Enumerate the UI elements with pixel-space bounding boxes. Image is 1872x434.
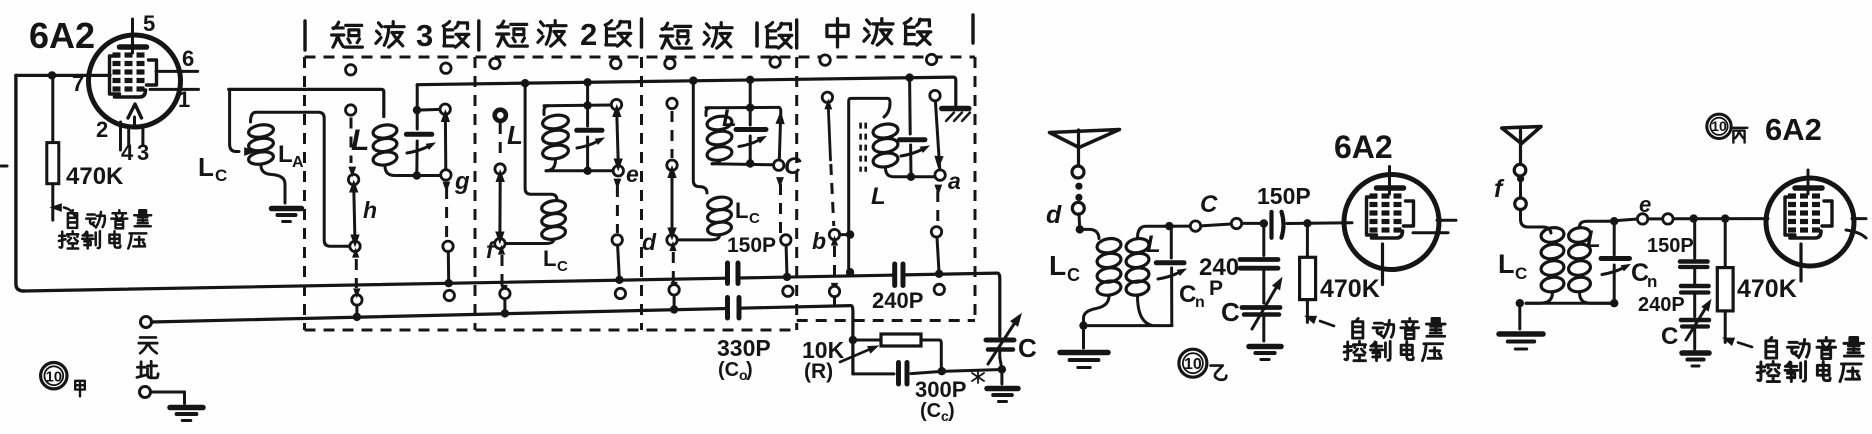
label band 中波段 (827, 19, 931, 47)
pin 4 wire (127, 126, 130, 145)
wiper arm b upper (824, 99, 833, 227)
node top rail B (1165, 222, 1173, 230)
trimmer Cn circuit B (1156, 226, 1188, 326)
wire box3 tank vertical (749, 80, 752, 108)
contact e-C1 (1637, 214, 1647, 224)
svg-text:d: d (1046, 201, 1062, 229)
node sw2 AVC junction (615, 276, 623, 284)
wire b to coil vertical (840, 233, 846, 236)
svg-text:L: L (1049, 250, 1066, 281)
wire coupling Lc-LA into box1 (256, 112, 350, 246)
contact g (441, 170, 451, 180)
contact sw2-R5 (615, 288, 625, 298)
svg-text:): ) (746, 359, 753, 381)
node box3 feed (689, 76, 697, 84)
antenna B (1050, 130, 1120, 167)
node resistor cap junction (938, 367, 946, 375)
svg-text:2: 2 (96, 117, 108, 142)
label AVC line2 (control voltage) (59, 231, 146, 248)
node trimmer tap band3 (413, 106, 421, 114)
svg-text:L: L (1498, 249, 1515, 279)
wiper arm g (441, 109, 450, 170)
contact C-B1 (1190, 221, 1200, 231)
svg-text:(C: (C (920, 400, 941, 422)
contact sw2-L5 (500, 288, 510, 298)
wire contact to cap B (1242, 222, 1267, 225)
svg-text:10: 10 (1711, 118, 1727, 134)
node ant-B dot1 (1075, 183, 1082, 190)
svg-text:C: C (1067, 265, 1080, 285)
tube V3 6A2 circuit C (1766, 170, 1866, 281)
antenna C lead through (1519, 130, 1522, 165)
badge 10-yi (1179, 349, 1207, 377)
svg-text:L: L (198, 152, 214, 182)
svg-text:h: h (363, 197, 377, 223)
coil Lc circuit C (1526, 226, 1565, 303)
contact sw1-R2 (440, 104, 450, 114)
contact sw2-L3 wiper top (495, 164, 505, 174)
variable capacitor C main tuning (986, 310, 1026, 370)
wire rail to contact e (1608, 219, 1637, 221)
node box2 tank feed (583, 78, 591, 86)
wire to coil C (1521, 209, 1537, 227)
contact sw1-R4 (443, 241, 453, 251)
label 甲 (75, 381, 85, 397)
node 150P tap C (1690, 214, 1698, 222)
svg-text:470K: 470K (1320, 275, 1380, 303)
contact sw4-R1 (926, 54, 936, 64)
junction star mark (972, 371, 984, 383)
contact sw3-L1 (665, 58, 675, 68)
svg-text:240P: 240P (872, 288, 923, 313)
pin 3 wire (141, 126, 144, 145)
node tank bottom junction band2 (583, 167, 591, 175)
dashed travel C lower (776, 177, 784, 233)
svg-text:L: L (543, 246, 556, 271)
node ground junction C (1516, 299, 1524, 307)
wire sw3-R4 to AVC bus (785, 245, 789, 277)
node sw3 bus junction (670, 305, 678, 313)
label Cn circuit B (1179, 281, 1205, 311)
node ground junction B (1079, 321, 1087, 329)
label band 短波2段 (497, 17, 631, 52)
contact sw3-L3 wiper top (667, 160, 677, 170)
trimmer capacitor band2 (577, 106, 607, 171)
node box4 AVC junction (846, 268, 854, 276)
ground at 地 terminal (170, 408, 203, 421)
node Cn bottom C (1610, 299, 1618, 307)
resistor 470K circuit B (1300, 224, 1316, 323)
wire sw4-L5 to antenna bus (833, 297, 836, 306)
contact ant-C2 (1515, 198, 1527, 210)
contact sw4-L2 (822, 92, 832, 102)
svg-text:g: g (454, 168, 470, 195)
resistor 10K (R) (853, 334, 941, 371)
wiper arm f (495, 169, 505, 245)
ground below C circuit C (1682, 353, 1709, 366)
contact sw3-L2 (667, 98, 677, 108)
trimmer capacitor band3 (406, 85, 437, 176)
wire between contacts C (1648, 217, 1663, 220)
contact sw2-L1 (490, 58, 500, 68)
svg-text:150P: 150P (727, 234, 776, 257)
label (Cc) (920, 400, 955, 424)
svg-text:C: C (1179, 281, 1196, 308)
node AVC junction (48, 71, 56, 79)
bus wire antenna (lower bus) (152, 306, 853, 374)
label 300P (915, 377, 966, 402)
coil L band3 (372, 123, 440, 175)
contact sw4-R5 (934, 284, 944, 294)
wire sw2-R4 to AVC bus (618, 245, 620, 280)
wire cap to tube B (1287, 221, 1352, 225)
pin 6 wire (156, 70, 198, 73)
tank rail top band1 (706, 108, 710, 116)
contact sw3-R4 (781, 235, 791, 245)
svg-text:330P: 330P (717, 335, 771, 361)
wiper arm h (349, 180, 360, 248)
wire contacts to tube C (1673, 217, 1768, 220)
wire box2 to coil Lc (525, 83, 557, 200)
dashed travel sw1 left lower (352, 248, 360, 299)
label Lc band2 (543, 246, 568, 275)
svg-text:150P: 150P (1257, 183, 1311, 209)
node sw3 AVC junction (783, 273, 791, 281)
node sw1 AVC junction (445, 279, 453, 287)
contact sw2-R2 (611, 99, 621, 109)
svg-text:10: 10 (45, 369, 62, 386)
wire trimmer to contact g-top (417, 108, 440, 112)
wire sw1-5 to antenna bus (355, 305, 358, 317)
coil L band4 with core (861, 98, 935, 176)
coil L band1 (706, 115, 733, 164)
coil Lc band2 (505, 199, 566, 244)
wiper arm a (934, 101, 944, 169)
node resistor tap (849, 336, 857, 344)
svg-text:e: e (626, 161, 639, 187)
pin 7 wire (16, 74, 110, 77)
node trimmer bottom band3 (413, 171, 421, 179)
contact sw2-R4 (612, 235, 622, 245)
ground main tuning (987, 389, 1018, 402)
wire sw3-L5 to antenna bus (673, 295, 676, 310)
svg-text:L: L (278, 141, 293, 168)
arrow AVC pointer C (1721, 333, 1752, 347)
dashed travel f lower (498, 245, 508, 296)
ground circuit B (1060, 353, 1108, 368)
svg-text:L: L (871, 183, 886, 210)
dashed travel f upper (499, 123, 502, 160)
contact sw3-L5 (669, 285, 679, 295)
antenna C (1502, 127, 1541, 144)
contact ant-B2 d (1072, 202, 1084, 214)
dashed travel e lower (614, 179, 622, 233)
svg-text:C: C (557, 258, 568, 275)
node ant-C dot (1517, 175, 1524, 182)
svg-text:150P: 150P (1647, 235, 1694, 257)
badge 10-bing (1707, 114, 1731, 138)
wire sw1-R4 to AVC bus (447, 252, 450, 284)
node 470K tap C (1721, 214, 1729, 222)
contact sw4-L1 (820, 55, 830, 65)
node tank bottom junction band4 (907, 173, 915, 181)
arrow AVC pointer B (1303, 312, 1334, 326)
contact d (667, 235, 677, 245)
label Lc circuit B (1049, 250, 1080, 285)
tank rail bottom band2 (546, 169, 613, 172)
contact C band1 (774, 160, 784, 170)
label 丙 (1731, 128, 1748, 143)
contact sw1-2 (346, 105, 356, 115)
capacitor 240P series in AVC bus (895, 264, 903, 286)
coil Lc band3x (677, 195, 732, 239)
node ant-B dot2 (1075, 194, 1082, 201)
svg-text:d: d (642, 229, 657, 255)
svg-text:7: 7 (72, 71, 84, 96)
contact sw1-3 wiper top (348, 174, 358, 184)
svg-text:(R): (R) (804, 360, 833, 383)
label 天 (139, 337, 157, 353)
badge 10-jia (41, 363, 67, 389)
node tuning ground junction (998, 365, 1006, 373)
tank rail top band2 (544, 106, 548, 115)
label Lc circuit C (1498, 249, 1527, 283)
svg-text:(C: (C (718, 359, 739, 381)
svg-text:300P: 300P (915, 377, 966, 402)
coil L circuit C (1568, 221, 1611, 303)
arrow pointer to 10K resistor (840, 342, 881, 362)
svg-text:C: C (1221, 297, 1240, 327)
dashed travel b lower (831, 236, 838, 294)
contact sw3-R1 (770, 57, 780, 67)
contact sw1-5 (352, 295, 362, 305)
svg-text:n: n (1195, 294, 1205, 311)
label band 短波1段 (661, 23, 792, 49)
label 乙 (1211, 366, 1227, 380)
pin 1 wire (150, 88, 199, 91)
contact e (613, 166, 623, 176)
svg-text:L: L (1146, 231, 1161, 258)
ground below C circuit B (1249, 347, 1281, 360)
contact sw1-1 (346, 65, 356, 75)
node sw1 bus junction (353, 313, 361, 321)
capacitor 150P circuit B (1272, 212, 1284, 238)
contact f (495, 238, 505, 248)
node box4 tank feed (905, 73, 913, 81)
svg-text:L: L (1586, 226, 1601, 253)
wire bottom rail B (1084, 324, 1173, 327)
arrow AVC pointer (50, 203, 76, 216)
label band 短波3段 (332, 18, 469, 53)
svg-text:b: b (812, 228, 826, 254)
dashed travel d upper (671, 111, 674, 158)
wiper arm C band1 (775, 107, 785, 160)
contact ant-B1 (1072, 166, 1084, 178)
node 470K tap B (1303, 219, 1311, 227)
node sw4 AVC junction (935, 270, 943, 278)
svg-text:6A2: 6A2 (1765, 112, 1822, 147)
coil LA (248, 112, 285, 203)
svg-text:L: L (735, 198, 748, 223)
label Cn circuit C (1631, 259, 1657, 291)
svg-text:C: C (749, 210, 760, 227)
ground circuit C (1499, 334, 1543, 349)
label LA (278, 141, 304, 171)
pin 2 wire (119, 122, 122, 150)
trimmer capacitor band4 (900, 78, 932, 177)
wire (1519, 183, 1522, 199)
label AVC line1 (auto volume) (68, 210, 151, 228)
wire ground stub C (1518, 303, 1521, 329)
contact b (829, 229, 839, 239)
band box frame (dashed) (305, 15, 976, 330)
dashed travel g lower (443, 182, 451, 239)
contact sw1-4 h (350, 241, 360, 251)
contact sw4-L5 (829, 286, 839, 296)
label Lc band1 (735, 198, 760, 227)
contact sw4-R4 (931, 227, 941, 237)
wire box1 top to coil L (229, 89, 384, 116)
svg-text:470K: 470K (66, 163, 124, 190)
svg-text:e: e (1639, 192, 1651, 217)
label AVC line2 circuit C (1757, 361, 1861, 381)
svg-text:L: L (351, 124, 369, 157)
trimmer Cn circuit C (1601, 221, 1633, 303)
svg-text:2: 2 (580, 17, 597, 52)
contact C-B2 (1231, 218, 1241, 228)
label AVC line1 circuit C (1766, 337, 1864, 358)
node 240P tap B (1260, 219, 1268, 227)
chassis ground top right (942, 109, 970, 122)
svg-text:C: C (784, 153, 802, 180)
dashed travel sw1 left upper (348, 118, 356, 178)
wire tap to coil LA (230, 91, 257, 156)
contact a (935, 170, 945, 180)
coil Lc circuit B (1080, 229, 1122, 324)
resistor 470K circuit C (1717, 219, 1733, 343)
stray mark left edge (1, 165, 7, 168)
wire to ground (1000, 369, 1003, 384)
wire bottom rail C (1526, 302, 1614, 305)
svg-text:C: C (1200, 191, 1218, 218)
wire to coil Lc B (1078, 214, 1082, 226)
resistor R-470K (47, 75, 59, 220)
svg-text:470K: 470K (1737, 275, 1797, 303)
svg-text:6A2: 6A2 (1334, 129, 1393, 165)
contact ant-C1 (1514, 164, 1526, 176)
wire tank rail band2 (544, 104, 612, 108)
wire box2 tank vertical (586, 82, 589, 105)
svg-text:6A2: 6A2 (29, 15, 95, 56)
coil L band2 (542, 113, 570, 170)
svg-text:10: 10 (1184, 356, 1202, 373)
ground below coil LA (272, 209, 302, 222)
node b tap (846, 230, 854, 238)
svg-text:C: C (1515, 264, 1527, 283)
contact sw2-R1 (611, 58, 621, 68)
svg-text:n: n (1647, 272, 1657, 291)
terminal antenna 天 (141, 317, 152, 328)
contact sw4-R2 (930, 90, 940, 100)
svg-text:1: 1 (178, 87, 190, 112)
dashed travel d lower (669, 241, 677, 292)
label (Co) (718, 359, 753, 383)
node rail junction band1 (746, 104, 754, 112)
svg-text:a: a (948, 168, 961, 194)
stud contact band2 (495, 110, 506, 121)
node box3 tank feed (746, 76, 754, 84)
svg-text:3: 3 (416, 18, 433, 53)
capacitor 150P series in AVC bus (728, 263, 739, 284)
wire top bus across band boxes (417, 77, 956, 105)
variable capacitor C circuit C (1681, 296, 1715, 349)
wire coil top horizontal band4 (849, 98, 888, 272)
capacitor 300P (Cc) (853, 363, 1002, 385)
node sw2 bus junction (501, 309, 509, 317)
contact sw1-R1 (441, 63, 451, 73)
svg-text:C: C (1661, 323, 1678, 350)
svg-text:3: 3 (137, 140, 149, 165)
capacitor 240P circuit B (1240, 224, 1278, 304)
capacitor 330P series in antenna bus (728, 298, 740, 319)
wire sw2-L5 to antenna bus (503, 299, 506, 314)
dashed travel a lower (934, 185, 942, 226)
terminal ground 地 (140, 387, 185, 404)
node top rail C (1610, 217, 1618, 225)
tank rail bottom band1 (712, 164, 774, 165)
wire AVC left vertical (16, 75, 24, 291)
label Lc (antenna coupling coil) (198, 152, 227, 185)
node box2 feed (521, 79, 529, 87)
node tank bottom junction band1 (746, 159, 754, 167)
contact sw3-R5 (783, 286, 793, 296)
svg-text:6: 6 (182, 46, 194, 71)
wire tank rail band1 (706, 106, 779, 109)
wiper arm d (667, 165, 676, 241)
wire rail to contacts B (1164, 225, 1190, 228)
label 地 (137, 361, 158, 378)
svg-text:A: A (292, 154, 304, 171)
trimmer capacitor band1 (736, 108, 769, 163)
svg-text:C: C (215, 166, 227, 185)
node rail junction band2 (583, 101, 591, 109)
node coil top B (1076, 225, 1084, 233)
capacitor 240P circuit C (1681, 270, 1709, 317)
label AVC line1 circuit B (1353, 318, 1446, 338)
svg-text:4: 4 (121, 140, 134, 165)
variable capacitor C circuit B (1242, 274, 1287, 341)
tube V1 6A2 heptode (89, 19, 181, 127)
wire box3 to coil Lc (693, 81, 707, 193)
svg-text:5: 5 (143, 11, 155, 36)
capacitor 150P circuit C (1680, 219, 1708, 267)
svg-text:): ) (948, 400, 955, 422)
coil L circuit B (1125, 226, 1164, 325)
contact sw1-R5 (444, 290, 454, 300)
contact e-C2 (1663, 214, 1673, 224)
wiper arm e (612, 104, 623, 172)
svg-text:L: L (507, 120, 523, 150)
label AVC line2 circuit B (1344, 341, 1443, 360)
svg-text:C: C (1018, 333, 1037, 363)
wire sw4-R4 to AVC bus (937, 237, 939, 274)
bus wire AVC (upper bus) (24, 273, 1000, 336)
wire between contacts B (1201, 224, 1231, 226)
wire ground stub B (1082, 326, 1085, 348)
tube V2 6A2 circuit B (1344, 167, 1456, 285)
svg-text:240P: 240P (1638, 294, 1685, 316)
